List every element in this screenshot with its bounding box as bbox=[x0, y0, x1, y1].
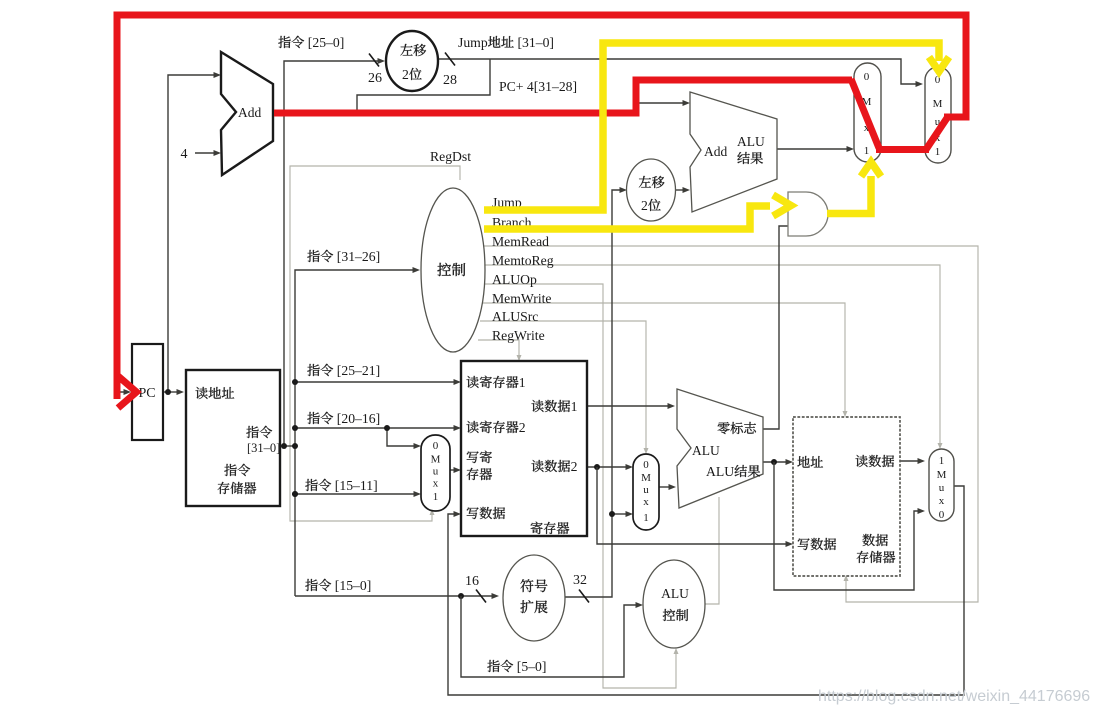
svg-text:2: 2 bbox=[641, 198, 648, 213]
label memory read data bbox=[855, 455, 894, 467]
label write data regfile bbox=[467, 507, 505, 519]
label registers bbox=[531, 522, 570, 534]
svg-text:M: M bbox=[937, 469, 947, 481]
data memory box bbox=[793, 417, 900, 576]
yellow arrowhead into branch mux bbox=[861, 162, 881, 177]
svg-text:32: 32 bbox=[573, 573, 587, 588]
svg-text:MemtoReg: MemtoReg bbox=[492, 253, 554, 268]
wire sign extend to ALUSrc mux input 1 bbox=[612, 513, 626, 515]
svg-text:0: 0 bbox=[939, 509, 945, 521]
svg-text:1: 1 bbox=[433, 491, 439, 503]
ALU control ellipse bbox=[643, 560, 705, 648]
wire instr[20-16] read register 2 bbox=[295, 427, 455, 429]
branch adder bbox=[690, 92, 777, 212]
svg-text:0: 0 bbox=[643, 459, 649, 471]
wire shift-left-2 output to branch adder bbox=[676, 189, 683, 191]
wire PC to instruction memory bbox=[163, 391, 178, 393]
svg-text:ALUSrc: ALUSrc bbox=[492, 309, 538, 324]
svg-text:0: 0 bbox=[433, 440, 439, 452]
svg-text:[15–11]: [15–11] bbox=[335, 478, 378, 493]
label write register bbox=[467, 451, 492, 463]
svg-text:u: u bbox=[643, 484, 649, 496]
wire ALU result to memory address bbox=[763, 461, 786, 463]
label address bbox=[797, 456, 823, 468]
wire branch adder result to branch mux input 1 bbox=[777, 148, 847, 150]
branch PC mux bbox=[854, 63, 881, 162]
label read register 2 bbox=[466, 421, 518, 433]
wire ALUSrc mux output to ALU bbox=[659, 486, 669, 488]
jump PC mux bbox=[925, 67, 951, 163]
svg-text:28: 28 bbox=[443, 73, 457, 88]
svg-text:1: 1 bbox=[935, 146, 941, 158]
svg-text:Add: Add bbox=[704, 144, 727, 159]
red highlight mux output to top and around to PC bbox=[117, 15, 966, 399]
svg-text:1: 1 bbox=[643, 512, 649, 524]
svg-text:[31–26]: [31–26] bbox=[337, 249, 380, 264]
wire RegDst mux output to write register bbox=[450, 469, 455, 471]
svg-text:u: u bbox=[433, 466, 439, 478]
label instr 15-0 bbox=[305, 579, 331, 591]
wire MemWrite control bbox=[482, 303, 845, 412]
red arrowhead into PC bbox=[118, 376, 137, 408]
wire MemtoReg control bbox=[483, 265, 940, 444]
label instr 31-26 bbox=[307, 250, 333, 262]
svg-text:M: M bbox=[641, 472, 651, 484]
wire RegWrite control bbox=[478, 340, 519, 356]
wire PC+4 from Add to mux (under red) bbox=[274, 80, 847, 113]
shift left 2 branch ellipse bbox=[627, 159, 676, 221]
label instruction memory bbox=[224, 464, 250, 476]
label instruction 31-0 bbox=[246, 426, 272, 438]
label read register 1 bbox=[466, 376, 518, 388]
wire ALU result bypass to final mux input 0 bbox=[774, 462, 918, 590]
svg-text:ALU: ALU bbox=[706, 464, 734, 479]
svg-text:[25–0]: [25–0] bbox=[308, 35, 345, 50]
wire PC feedback up to Add bbox=[168, 75, 215, 392]
wire ALU control to ALU bbox=[705, 497, 719, 604]
label instr 5-0 bbox=[487, 660, 513, 672]
label instr 25-21 bbox=[307, 364, 333, 376]
label read data 2 bbox=[531, 460, 570, 472]
svg-text:16: 16 bbox=[465, 574, 479, 589]
wire instr[15-0] to sign extend bbox=[295, 595, 492, 597]
svg-text:[20–16]: [20–16] bbox=[337, 411, 380, 426]
yellow highlight Jump control to jump mux bbox=[484, 43, 939, 210]
wire instr[25-21] read register 1 bbox=[295, 381, 455, 383]
svg-text:ALUOp: ALUOp bbox=[492, 272, 537, 287]
sign extend ellipse bbox=[503, 555, 565, 641]
svg-text:Jump: Jump bbox=[458, 35, 488, 50]
main ALU bbox=[677, 389, 763, 508]
PC register bbox=[132, 344, 163, 440]
wire read data 2 to ALUSrc mux bbox=[587, 466, 626, 468]
wire constant 4 into Add bbox=[195, 152, 215, 154]
shift left 2 top ellipse bbox=[386, 31, 438, 91]
wire memory read data to final mux input 1 bbox=[900, 460, 918, 462]
control unit ellipse bbox=[421, 188, 485, 352]
wire ALU zero flag to AND gate bbox=[763, 226, 788, 429]
svg-text:[31–0]: [31–0] bbox=[518, 35, 555, 50]
label data memory bbox=[862, 534, 887, 546]
svg-text:PC: PC bbox=[138, 386, 155, 401]
svg-text:M: M bbox=[431, 454, 441, 466]
label instr 15-11 bbox=[305, 479, 331, 491]
svg-text:PC+ 4[31–28]: PC+ 4[31–28] bbox=[499, 79, 577, 94]
wire jump address to jump mux bbox=[438, 59, 917, 84]
wire mux2 output to PC (under red highlight) bbox=[117, 15, 966, 392]
svg-text:x: x bbox=[433, 478, 439, 490]
red highlight through branch mux bbox=[851, 79, 879, 148]
label read data 1 bbox=[531, 400, 570, 412]
svg-text:0: 0 bbox=[864, 71, 870, 83]
red highlight between muxes bbox=[876, 146, 929, 153]
svg-text:RegDst: RegDst bbox=[430, 149, 471, 164]
label read address bbox=[195, 387, 234, 399]
svg-text:ALU: ALU bbox=[661, 586, 689, 601]
wire sign extend output up to shift-left-2 and ALUSrc mux bbox=[565, 190, 621, 597]
wire PC+4 into branch adder bbox=[636, 102, 683, 104]
wire read data 2 to memory write data bbox=[597, 467, 786, 544]
svg-text:26: 26 bbox=[368, 71, 382, 86]
svg-text:https://blog.csdn.net/weixin_4: https://blog.csdn.net/weixin_44176696 bbox=[818, 688, 1090, 705]
svg-text:1: 1 bbox=[864, 145, 870, 157]
red highlight through jump mux bbox=[926, 118, 947, 150]
wire instr[15-11] to RegDst mux input 1 bbox=[295, 493, 414, 495]
RegDst mux bbox=[421, 435, 450, 511]
svg-text:Add: Add bbox=[238, 105, 261, 120]
final write-back mux bbox=[929, 449, 954, 521]
register file box bbox=[461, 361, 587, 536]
AND gate branch bbox=[788, 192, 828, 236]
svg-text:MemRead: MemRead bbox=[492, 234, 549, 249]
wire instruction bus A instr[25-0] bbox=[284, 61, 378, 446]
yellow arrowhead into jump mux bbox=[929, 57, 949, 72]
red highlight PC+4 path to mux bbox=[274, 80, 852, 113]
svg-text:2: 2 bbox=[402, 67, 409, 82]
svg-text:ALU: ALU bbox=[692, 443, 720, 458]
svg-text:1: 1 bbox=[571, 399, 578, 414]
yellow arrowhead into AND gate bbox=[773, 195, 791, 216]
svg-text:1: 1 bbox=[939, 455, 945, 467]
label instr 20-16 bbox=[307, 412, 333, 424]
wire instruction bus B bbox=[295, 270, 413, 596]
wire PC+4[31-28] tap bbox=[357, 59, 490, 113]
svg-text:x: x bbox=[643, 496, 649, 508]
yellow highlight AND gate output to branch mux select bbox=[827, 176, 871, 214]
svg-text:ALU: ALU bbox=[737, 134, 765, 149]
label zero flag bbox=[718, 422, 756, 434]
wire ALUOp control bbox=[483, 284, 676, 688]
svg-text:RegWrite: RegWrite bbox=[492, 328, 545, 343]
wire write-back from final mux to register write data bbox=[448, 486, 964, 695]
svg-text:[25–21]: [25–21] bbox=[337, 363, 380, 378]
svg-text:u: u bbox=[939, 482, 945, 494]
label memory write data bbox=[798, 538, 836, 550]
wire MemRead control bbox=[482, 246, 978, 602]
wire instr[20-16] branch to RegDst mux input 0 bbox=[387, 428, 414, 446]
adder Add PC+4 bbox=[221, 52, 273, 175]
svg-text:4: 4 bbox=[181, 147, 188, 162]
ALUSrc mux bbox=[633, 454, 659, 530]
label instr 25-0 bbox=[278, 36, 304, 48]
svg-text:2: 2 bbox=[519, 420, 526, 435]
wire read data 1 to ALU bbox=[587, 405, 669, 407]
wire instr[31-0] from memory bbox=[280, 445, 295, 447]
svg-text:M: M bbox=[933, 98, 943, 110]
wire instr[5-0] to ALU control bbox=[461, 596, 637, 677]
svg-text:[31–0]: [31–0] bbox=[247, 441, 280, 455]
svg-text:[15–0]: [15–0] bbox=[335, 578, 372, 593]
svg-text:MemWrite: MemWrite bbox=[492, 291, 552, 306]
yellow highlight Branch control to AND gate bbox=[484, 206, 770, 229]
svg-text:1: 1 bbox=[519, 375, 526, 390]
wire ALUSrc control bbox=[480, 321, 646, 449]
svg-text:2: 2 bbox=[571, 459, 578, 474]
svg-text:[5–0]: [5–0] bbox=[517, 659, 547, 674]
wire RegDst control bbox=[290, 166, 460, 521]
instruction memory box bbox=[186, 370, 280, 506]
svg-text:x: x bbox=[939, 495, 945, 507]
